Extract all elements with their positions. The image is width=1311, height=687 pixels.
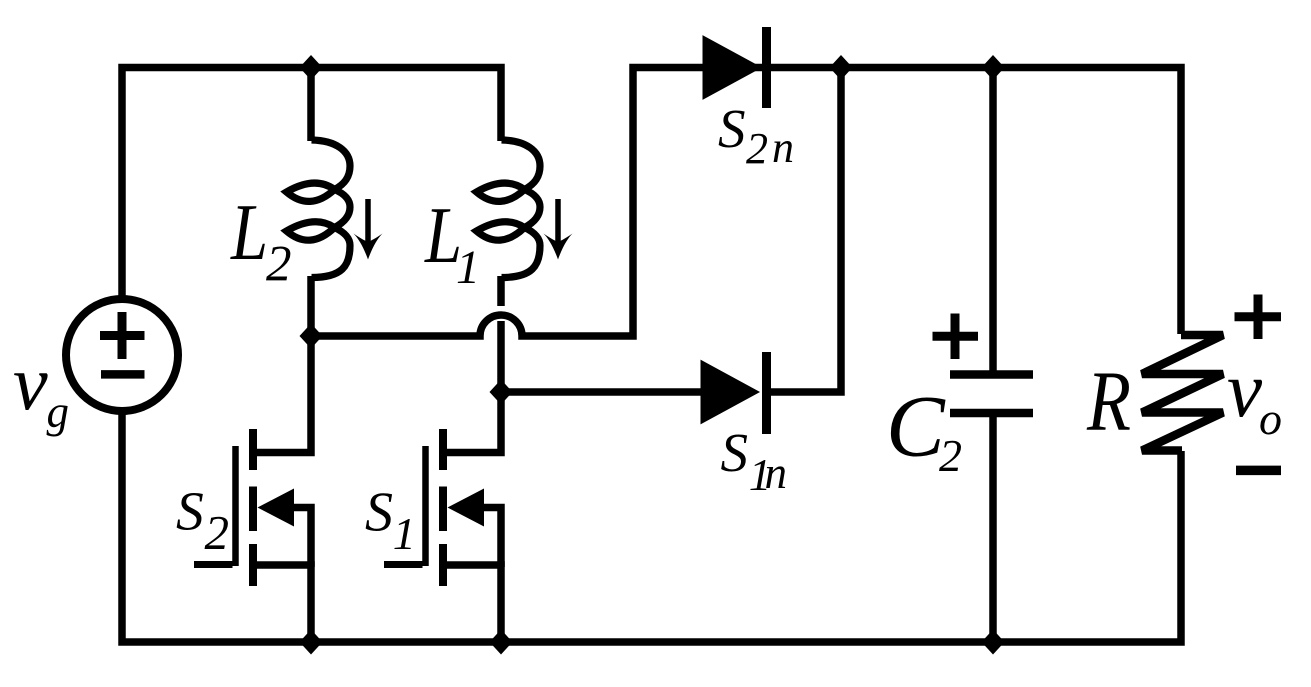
S2 gate lead bbox=[194, 561, 233, 568]
wire: mid horizontal with crossover hop + mid vertical + diode top rail + right rail upper bbox=[311, 68, 1181, 337]
S1 body diode arrow bbox=[448, 489, 485, 527]
S1 source lead + source drop bbox=[443, 565, 501, 642]
voltage source Vg circle bbox=[66, 299, 178, 411]
svg-text:o: o bbox=[1259, 393, 1282, 444]
transistor S2 (MOSFET) bbox=[194, 336, 311, 642]
resistor R zigzag bbox=[1142, 335, 1223, 451]
diode S2n triangle bbox=[703, 36, 761, 99]
S2 body lead bbox=[292, 508, 311, 568]
wire: S1n row from node to diode bbox=[501, 388, 701, 396]
wire: S1n output to riser up to top rail bbox=[764, 68, 841, 393]
svg-text:1: 1 bbox=[393, 508, 416, 559]
svg-text:v: v bbox=[13, 339, 48, 426]
node: S2 source / bottom rail junction bbox=[300, 630, 323, 655]
wire: left rail bottom + bottom rail + right rail lower bbox=[122, 411, 1181, 642]
node: S1 source / bottom rail junction bbox=[490, 630, 513, 655]
S1 gate lead bbox=[384, 561, 423, 568]
wire: L2 top lead bbox=[307, 64, 315, 142]
svg-text:2: 2 bbox=[205, 505, 230, 560]
node: capacitor branch top junction bbox=[982, 55, 1005, 80]
capacitor C2 bottom plate bbox=[950, 409, 1033, 418]
node: top rail / L2 junction bbox=[300, 55, 323, 80]
S1 gate bar bbox=[422, 446, 429, 566]
node: capacitor bottom junction bbox=[982, 630, 1005, 655]
S2 source lead + source drop bbox=[253, 565, 311, 642]
node: L2 bottom junction bbox=[300, 324, 323, 349]
current arrow for L2 bbox=[365, 199, 371, 250]
S2 body diode arrow bbox=[258, 489, 295, 527]
wire: L2 bottom lead bbox=[307, 276, 315, 336]
svg-text:R: R bbox=[1086, 353, 1131, 449]
voltage source plus sign bbox=[100, 312, 145, 359]
svg-text:2: 2 bbox=[266, 237, 292, 293]
svg-text:S: S bbox=[176, 482, 204, 543]
diode S2n cathode bar bbox=[762, 27, 771, 108]
svg-text:n: n bbox=[765, 448, 788, 498]
svg-text:S: S bbox=[721, 422, 749, 483]
svg-text:S: S bbox=[718, 98, 746, 159]
diode S1n triangle bbox=[701, 361, 759, 424]
svg-text:L: L bbox=[230, 189, 268, 277]
plus sign for vo bbox=[1235, 295, 1282, 340]
svg-text:C: C bbox=[886, 379, 946, 476]
node: L1 bottom / S1n junction bbox=[490, 380, 513, 405]
S1 channel segments bbox=[439, 429, 447, 586]
inductor L2 coil bbox=[287, 140, 351, 278]
minus sign for vo bbox=[1236, 466, 1281, 476]
svg-text:2: 2 bbox=[939, 430, 962, 481]
S1 drain lead + drain riser bbox=[443, 392, 501, 453]
svg-text:2: 2 bbox=[746, 124, 768, 173]
svg-text:v: v bbox=[1227, 347, 1263, 434]
node: diode output riser junction bbox=[830, 55, 853, 80]
diode S1n cathode bar bbox=[762, 352, 771, 434]
current arrow for L1 bbox=[555, 199, 561, 250]
S1 body lead bbox=[482, 508, 501, 568]
wire: capacitor branch bottom lead bbox=[989, 417, 997, 642]
inductor L1 coil bbox=[477, 140, 541, 278]
voltage source minus sign bbox=[101, 370, 145, 379]
plus sign above C2 bbox=[933, 314, 979, 360]
transistor S1 (MOSFET) bbox=[384, 392, 501, 642]
capacitor C2 top plate bbox=[950, 370, 1033, 379]
S2 drain lead + drain riser bbox=[253, 336, 311, 453]
wire: capacitor branch top lead bbox=[989, 64, 997, 371]
S2 gate bar bbox=[232, 446, 239, 566]
svg-text:n: n bbox=[772, 123, 794, 172]
svg-text:1: 1 bbox=[456, 241, 480, 294]
svg-text:g: g bbox=[47, 387, 70, 437]
wire: left rail top + top rail + L1 top lead bbox=[122, 68, 501, 300]
S2 channel segments bbox=[249, 429, 257, 586]
svg-text:S: S bbox=[365, 482, 393, 544]
wire: L1 bottom lead upper part bbox=[497, 276, 505, 306]
wire: L1 bottom lead lower part through hop to node bbox=[497, 321, 505, 392]
